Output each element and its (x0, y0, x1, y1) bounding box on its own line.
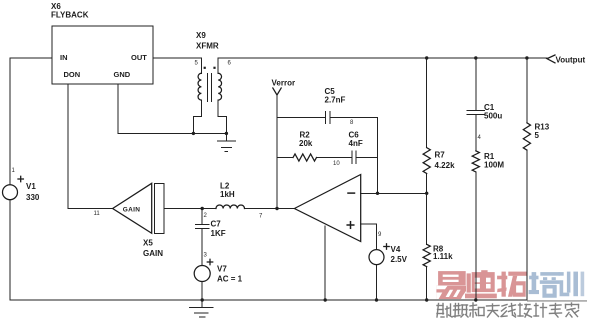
R2 labels (299, 131, 340, 168)
svg-text:4nF: 4nF (349, 139, 363, 148)
wire: R8 bottom (426, 267, 428, 300)
R13 labels (535, 123, 550, 141)
svg-text:1.11k: 1.11k (433, 252, 453, 261)
op-amp input symbols (347, 193, 382, 238)
wire: R2 row left (277, 157, 293, 159)
svg-text:8: 8 (350, 120, 354, 126)
svg-text:1: 1 (12, 168, 16, 174)
wire: Voutput stub (527, 57, 547, 59)
ground symbol under transformer (225, 133, 227, 141)
junction: ground bus / V4 (375, 298, 378, 301)
R7 labels (435, 151, 456, 171)
wire: R7 top (426, 58, 428, 148)
svg-text:R7: R7 (435, 151, 446, 160)
junction: Verror / op-amp output (275, 207, 278, 210)
wire: R2 to C6 (317, 157, 353, 159)
junction: top bus / R7 (425, 56, 428, 59)
svg-text:X9: X9 (196, 31, 206, 40)
wire: transformer left lead bottom (193, 100, 201, 133)
wire: node 2 to C7 (201, 209, 203, 225)
gain block X5 rectangle (155, 183, 165, 233)
wire: V7 to ground bus (201, 282, 203, 300)
svg-text:7: 7 (259, 214, 263, 220)
wire: flyback IN to left rail (10, 57, 52, 59)
wire: Verror vertical (276, 95, 278, 209)
wire: bottom ground bus (10, 299, 527, 301)
C6 labels (349, 131, 363, 149)
svg-text:2.5V: 2.5V (391, 255, 408, 264)
wire: feedback right vertical (377, 118, 379, 194)
C7 labels (204, 213, 226, 259)
svg-text:V1: V1 (26, 182, 36, 191)
svg-text:C7: C7 (211, 220, 222, 229)
junction: transformer secondary left (192, 132, 195, 135)
junction: ground bus / R1 (474, 298, 477, 301)
svg-text:330: 330 (26, 193, 40, 202)
watermark char 1 (red) (436, 271, 466, 299)
junction: feedback to inverting input (376, 192, 379, 195)
svg-text:GND: GND (114, 70, 131, 79)
wire: gain input to node 2 (164, 208, 216, 210)
wire: transformer right lead bottom (218, 100, 226, 133)
svg-text:11: 11 (94, 211, 101, 217)
svg-text:10: 10 (333, 161, 340, 167)
svg-text:20k: 20k (299, 139, 313, 148)
wire: top output bus (218, 57, 547, 59)
svg-text:9: 9 (378, 232, 382, 238)
wire: transformer bottom (193, 132, 226, 134)
V4 labels (384, 244, 408, 264)
wire: R13 bottom (526, 150, 528, 300)
wire: R1 bottom (475, 172, 477, 300)
wire: C1 top (475, 58, 477, 110)
svg-text:GAIN: GAIN (143, 249, 163, 258)
svg-text:X5: X5 (143, 239, 153, 248)
svg-text:2.7nF: 2.7nF (325, 96, 346, 105)
svg-text:AC = 1: AC = 1 (217, 275, 243, 284)
wire: L2 to op-amp output (245, 208, 295, 210)
wire: left rail down to V1 top (9, 58, 11, 185)
wire: C6 row right (356, 157, 378, 159)
wire: transformer right lead top (217, 58, 219, 73)
flyback X6 box (52, 26, 153, 84)
wire: C5 row left (277, 117, 326, 119)
wire: C7 to V7 (201, 228, 203, 265)
voltage source V7 (194, 266, 210, 282)
capacitor C6 plates (351, 151, 353, 163)
junction: ground bus / V7 (201, 298, 204, 301)
op-amp triangle (294, 175, 360, 242)
svg-text:100M: 100M (484, 161, 504, 170)
wire: op-amp ground pin (324, 226, 326, 300)
svg-text:3: 3 (204, 253, 208, 259)
transformer X9 labels (195, 31, 232, 67)
flyback X6 labels (51, 2, 147, 79)
watermark underline (527, 300, 587, 302)
svg-text:1kH: 1kH (220, 190, 235, 199)
wire: V4 bottom to ground bus (376, 265, 378, 300)
wire: flyback OUT to transformer (153, 57, 201, 59)
C1 labels (478, 103, 503, 141)
transformer phase dots (204, 67, 216, 69)
gain block X5 triangle (113, 183, 152, 233)
resistor R2 zigzag (293, 154, 316, 161)
wire: transformer left lead top (200, 58, 202, 73)
L2 labels (220, 182, 263, 220)
resistor R1 zigzag (472, 151, 479, 172)
voltage source V1 (3, 185, 18, 200)
wire: C1 to R1 (475, 115, 477, 151)
svg-text:500u: 500u (484, 112, 502, 121)
svg-text:Voutput: Voutput (556, 56, 586, 65)
wire: non-inverting input to V4 (361, 224, 377, 250)
svg-text:1KF: 1KF (211, 229, 226, 238)
watermark char 4 (blue) (529, 272, 560, 298)
svg-text:5: 5 (535, 131, 540, 140)
watermark char 5 (blue) (559, 272, 585, 297)
junction: inverting input to R7-R8 (425, 192, 428, 195)
watermark char 2 (red) (465, 270, 497, 298)
junction: node 2 (C7 tap) (201, 207, 204, 210)
junction: top bus / R13 (525, 56, 528, 59)
resistor R13 zigzag (523, 123, 530, 150)
transformer core bars (207, 73, 209, 101)
wire: inverting input row (361, 192, 427, 194)
wire: V1 bottom to ground bus (9, 200, 11, 300)
wire: DON pin down (67, 84, 69, 209)
R1 labels (484, 152, 504, 170)
svg-text:GAIN: GAIN (123, 206, 140, 213)
V7 labels (207, 259, 242, 283)
Voutput terminal arrow (547, 55, 555, 63)
junction: transformer secondary right / ground (225, 132, 228, 135)
svg-text:Verror: Verror (272, 79, 296, 88)
wire: C5 row right (330, 117, 378, 119)
ground symbol under V7 (201, 300, 203, 308)
junction: top bus / C1 (474, 56, 477, 59)
capacitor C5 plates (325, 112, 327, 124)
gain X5 labels (94, 206, 164, 258)
capacitor C7 plates (196, 223, 209, 225)
svg-text:V7: V7 (217, 265, 227, 274)
svg-text:OUT: OUT (131, 53, 147, 62)
svg-text:5: 5 (195, 61, 199, 67)
inductor L2 (216, 205, 244, 209)
capacitor C1 plates (467, 109, 484, 111)
V1 labels (12, 168, 40, 202)
R8 labels (433, 245, 453, 262)
svg-text:4: 4 (478, 135, 482, 141)
voltage source V4 (369, 250, 384, 265)
resistor R8 zigzag (423, 244, 430, 266)
svg-text:IN: IN (60, 53, 68, 62)
transformer X9 left winding (198, 73, 201, 100)
svg-text:XFMR: XFMR (196, 42, 219, 51)
junction: ground bus / op-amp pin (324, 298, 327, 301)
junction: ground bus / R8 (425, 298, 428, 301)
watermark char 3 (red) (497, 272, 527, 297)
wire: flyback GND pin down (118, 84, 193, 133)
wire: R7 to R8 (426, 174, 428, 245)
C5 labels (325, 87, 355, 126)
resistor R7 zigzag (423, 148, 430, 174)
svg-text:V4: V4 (391, 245, 401, 254)
svg-text:4.22k: 4.22k (435, 161, 456, 170)
wire: R13 top (526, 58, 528, 123)
transformer X9 right winding (218, 73, 221, 100)
wire: gain output to DON (68, 208, 113, 210)
svg-text:FLYBACK: FLYBACK (51, 11, 89, 20)
svg-text:DON: DON (64, 70, 81, 79)
svg-text:6: 6 (228, 61, 232, 67)
svg-text:2: 2 (204, 213, 208, 219)
Verror terminal arrow (273, 88, 281, 95)
watermark tagline (gray serif approximations) (437, 303, 579, 317)
